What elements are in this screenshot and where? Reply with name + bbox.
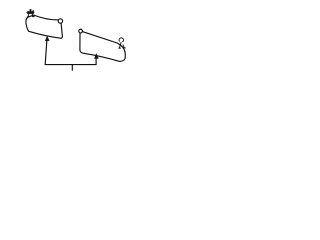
sun visor 1 pivot knob [58, 19, 62, 23]
sun visor 1 body outline [26, 15, 63, 38]
callout bracket: horizontal line [45, 64, 96, 66]
callout bracket: left riser [45, 41, 47, 64]
callout bracket: center tick (down) [71, 65, 73, 70]
callout bracket: right riser [95, 59, 97, 65]
visor 2 support clip icon [119, 38, 126, 48]
visor 1 mounting bracket icon [27, 9, 35, 17]
sun visor 2 pivot knob [79, 29, 83, 33]
sun visor 2 body outline [80, 32, 125, 62]
callout bracket: left up-arrowhead [45, 36, 49, 41]
sun visor 1 top edge [34, 15, 58, 20]
callout bracket: right up-arrowhead [94, 54, 98, 59]
